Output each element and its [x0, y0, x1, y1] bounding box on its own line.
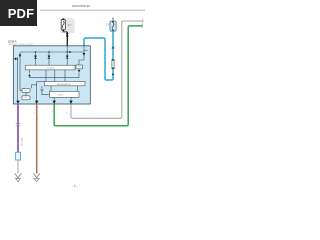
- svg-text:(ENGINE CONTROL MOD): (ENGINE CONTROL MOD): [8, 44, 33, 46]
- svg-text:15A: 15A: [106, 23, 111, 26]
- wire: purple (ground path): [18, 104, 23, 152]
- wire: J1 to ground G1: [17, 160, 19, 173]
- pin: brown (arrow): [35, 101, 38, 104]
- diode D2 (below backup box): [78, 69, 81, 78]
- footer page number: [72, 184, 78, 188]
- wire: internal feeds to regulator: [46, 70, 65, 82]
- connector C3 (splice on purple wire): [16, 123, 20, 126]
- connector C2 (in-line, on blue wire): [111, 59, 114, 69]
- wire: brown (ground path): [33, 104, 36, 173]
- diode D1 (left edge): [13, 57, 17, 60]
- svg-text:DC/DC: DC/DC: [48, 68, 55, 70]
- header title text: [72, 4, 90, 8]
- junction connector J1 (blue box): [16, 152, 21, 160]
- fuse F1 (EFI) in junction block: [61, 18, 75, 33]
- internal bus: [20, 46, 84, 91]
- ECM label: [8, 40, 33, 46]
- transistor Q5 (below blue pin): [79, 46, 88, 65]
- pin: green (arrow): [53, 97, 56, 104]
- transistor Q6 (regulator to CPU, Y symbol): [41, 86, 50, 95]
- pin: gray (arrow): [69, 97, 72, 104]
- svg-text:5: 5: [66, 113, 68, 115]
- svg-text:3: 3: [51, 111, 53, 113]
- svg-text:1: 1: [21, 113, 23, 115]
- wire: regulator to CPU: [51, 86, 77, 92]
- wire: fuse F1 to ECM (black): [63, 30, 68, 47]
- internal box: memory 1: [22, 88, 30, 92]
- fuse F2: [106, 18, 116, 31]
- internal box: memory 2: [22, 96, 30, 100]
- svg-text:2: 2: [33, 113, 35, 115]
- transistor Q2: [34, 52, 37, 65]
- transistor Q1 (on left bus leg): [19, 55, 22, 58]
- svg-text:ECM PWR 40: ECM PWR 40: [72, 4, 90, 8]
- wire: green return to ECM: [54, 24, 142, 126]
- diode D3 (upward): [28, 70, 31, 78]
- svg-text:W-B 104: W-B 104: [20, 138, 22, 147]
- ground G1: [15, 173, 21, 182]
- internal box: main relay: [25, 65, 75, 70]
- wire: internal to purple pin: [17, 59, 19, 101]
- wire: gray return to ECM: [51, 19, 143, 118]
- internal box: CPU: [50, 91, 80, 97]
- svg-text:ECM-A: ECM-A: [8, 40, 17, 44]
- transistor Q4: [66, 52, 69, 65]
- internal box: regulator: [44, 81, 85, 86]
- wire: regulator to brown pin: [37, 82, 45, 101]
- svg-text:REGULATOR: REGULATOR: [57, 83, 71, 86]
- svg-text:- 4 -: - 4 -: [72, 184, 78, 188]
- pin: purple (arrow): [16, 101, 19, 104]
- wire: memory links: [26, 85, 37, 96]
- wire: fuse F2 to ECM (blue): [83, 31, 115, 80]
- ECM block: [13, 46, 90, 104]
- svg-text:EFI: EFI: [68, 24, 72, 27]
- ground G2: [34, 173, 40, 182]
- internal box: backup: [76, 65, 83, 69]
- svg-text:CPU: CPU: [58, 95, 63, 97]
- transistor Q3: [48, 52, 51, 65]
- wire: internal rail: [30, 77, 80, 79]
